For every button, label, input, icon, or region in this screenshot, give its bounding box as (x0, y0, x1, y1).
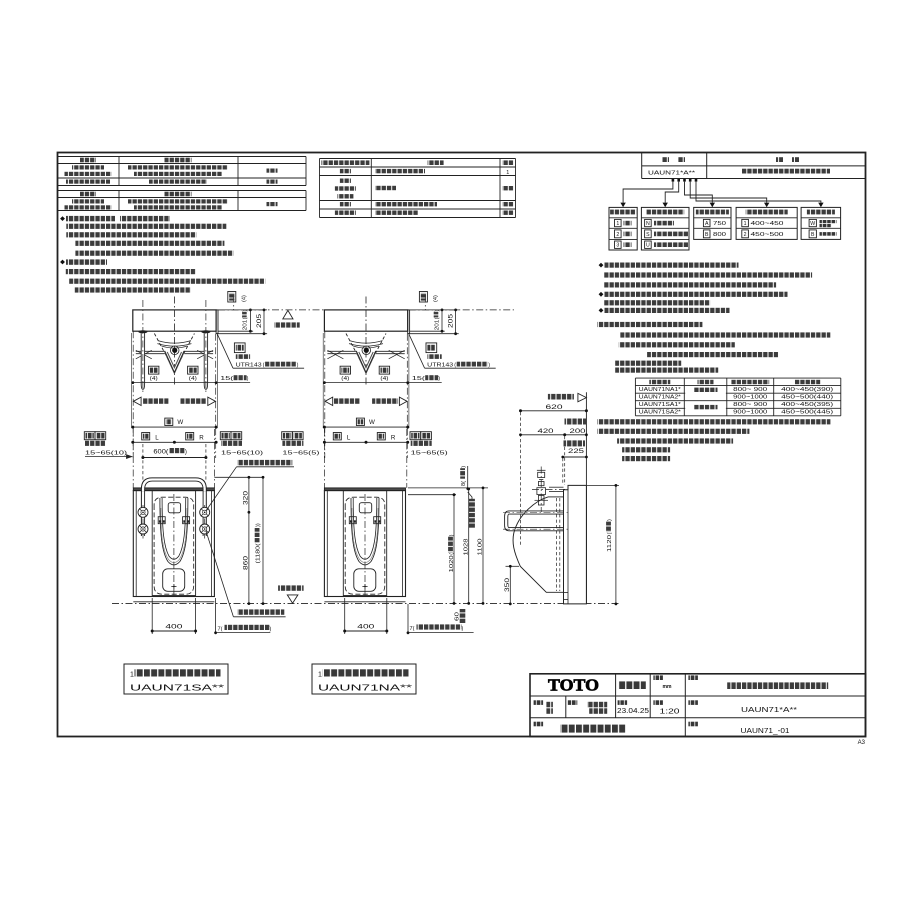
plan counter top board (133, 310, 216, 331)
svg-text:L: L (347, 434, 351, 441)
svg-text:): ) (185, 449, 187, 455)
filler label group 3 (282, 432, 293, 440)
dimension 201 top board depth (218, 309, 267, 311)
dimension 7 side panel case mid (407, 604, 409, 633)
remarks cell (534, 722, 544, 727)
svg-text:2: 2 (616, 232, 619, 238)
plan urinal funnel (358, 353, 374, 371)
svg-text:(4): (4) (433, 295, 439, 302)
tree box fixture pitch (694, 207, 731, 239)
notes usage caution (60, 260, 65, 265)
grab bar side view (509, 510, 564, 512)
plan grab bar (201, 330, 210, 333)
svg-text:750: 750 (713, 221, 726, 227)
svg-text:R: R (391, 434, 396, 441)
svg-text:)): )) (256, 523, 262, 527)
plan spreader pipes (136, 350, 166, 352)
plan urinal drain spud (172, 348, 177, 353)
svg-text:UTR143: UTR143 (427, 363, 453, 369)
plan centerline (173, 297, 175, 386)
svg-text:UAUN71NA1*: UAUN71NA1* (639, 387, 681, 393)
plan centerline (365, 297, 367, 386)
svg-text:1: 1 (506, 170, 509, 176)
grab bar centerline (142, 505, 144, 539)
svg-text:450~500(440): 450~500(440) (781, 395, 834, 401)
elevation front panel (324, 491, 405, 597)
plan side cross marks (136, 350, 152, 359)
svg-text:350: 350 (505, 577, 511, 592)
svg-text:U: U (646, 243, 650, 249)
elevation top board edge band (324, 488, 405, 491)
svg-text:205: 205 (257, 313, 263, 328)
svg-text:1: 1 (318, 671, 322, 678)
callout grab bar supplied separately (206, 467, 237, 511)
svg-text:800: 800 (713, 232, 726, 238)
svg-text:1: 1 (744, 221, 747, 227)
svg-text:900~1000: 900~1000 (733, 395, 767, 401)
elevation top board edge band (133, 488, 214, 491)
extension top board mid (408, 487, 488, 489)
svg-text:1028: 1028 (463, 539, 469, 556)
table floor substrate (58, 190, 307, 192)
callout bar mounting hole opening (206, 531, 234, 617)
tree box fixture width (736, 207, 797, 239)
svg-text:UAUN71SA**: UAUN71SA** (130, 683, 225, 693)
svg-text:B: B (811, 232, 815, 238)
grab bar flange (138, 524, 148, 534)
title block frame (530, 674, 866, 737)
plan urinal drain spud (364, 348, 369, 353)
note 1 opening dimensions (597, 322, 702, 327)
plan urinal funnel (166, 353, 182, 371)
elevation filler strips (326, 491, 328, 597)
svg-text:(: ( (434, 317, 440, 319)
elevation base skirt (133, 596, 214, 598)
grab bar centerline (204, 505, 206, 539)
svg-text:7(: 7( (410, 626, 415, 632)
elevation flush unit (168, 503, 180, 513)
tree box grab-bar machining (641, 207, 689, 250)
svg-text:UAUN71*A**: UAUN71*A** (648, 170, 696, 176)
side panel profile (564, 485, 587, 604)
sheet frame (58, 153, 866, 737)
svg-text:(: ( (243, 317, 249, 319)
svg-text:23.04.25: 23.04.25 (617, 708, 649, 715)
svg-text:N: N (646, 221, 650, 227)
svg-text:8(: 8( (461, 481, 467, 486)
floor line (112, 603, 619, 605)
dimension 1028 (468, 489, 470, 604)
svg-text:15~65(10): 15~65(10) (85, 451, 127, 457)
svg-text:L: L (155, 434, 159, 441)
elevation urinal bowl rim (160, 498, 188, 565)
elevation urinal bowl rim (351, 498, 379, 565)
dimension 1020 urinal (408, 494, 456, 496)
wall lines above left elevation (132, 429, 134, 488)
svg-text:225: 225 (568, 449, 585, 455)
dimension L R (142, 433, 150, 440)
plan counter top board (324, 310, 407, 331)
unit cell (653, 675, 663, 680)
table lining parts breakdown (320, 158, 516, 160)
svg-text:(4): (4) (150, 376, 158, 382)
grab bar front view (141, 487, 144, 491)
svg-text:(: ( (607, 532, 613, 534)
svg-text:): ) (438, 376, 440, 382)
svg-text:1020: 1020 (449, 555, 455, 572)
svg-text:(4): (4) (189, 376, 197, 382)
table part number and name (641, 153, 643, 179)
svg-text:(: ( (449, 553, 455, 555)
svg-text:201: 201 (434, 320, 440, 331)
svg-text:205: 205 (449, 313, 455, 328)
elevation urinal hidden outline (154, 497, 194, 594)
plan note2 markers inside (340, 366, 350, 374)
rotated note2 marker (419, 292, 427, 303)
svg-text:400~450: 400~450 (751, 221, 784, 227)
svg-text:A: A (705, 221, 709, 227)
svg-text:TOTO: TOTO (548, 675, 599, 694)
dimension W (356, 418, 364, 425)
dimension 205 (410, 333, 459, 335)
elevation urinal centerline (173, 494, 175, 596)
side panel centerline stub (424, 296, 426, 310)
label box with grab bars (124, 664, 228, 694)
svg-text:60: 60 (455, 612, 461, 621)
plan spreader pipes (327, 350, 357, 352)
table wall substrate (58, 156, 307, 158)
svg-text:15~65(5): 15~65(5) (411, 451, 448, 457)
plan W extension lines (131, 333, 133, 428)
notes frame installation (60, 216, 65, 221)
svg-text:(: ( (263, 363, 265, 369)
svg-text:UAUN71NA2*: UAUN71NA2* (639, 395, 681, 401)
scale cell (653, 700, 663, 705)
svg-text:W: W (177, 419, 183, 426)
dimension 201 top board depth (410, 309, 459, 311)
svg-text:320: 320 (243, 490, 249, 505)
plan width reference line (324, 382, 441, 384)
elevation access opening (152, 491, 195, 596)
plan urinal rim arcs (158, 341, 191, 344)
elevation urinal centerline (364, 494, 366, 596)
plan W extension lines (322, 333, 324, 428)
svg-text:400~450(390): 400~450(390) (781, 387, 834, 393)
dimension L R (333, 433, 341, 440)
elevation sensors (158, 517, 165, 524)
tree box unit count (609, 207, 637, 250)
plan wall face lines (132, 331, 134, 458)
date cell (618, 700, 628, 705)
svg-text:): ) (607, 519, 613, 521)
svg-text:1: 1 (616, 221, 619, 227)
svg-text:15~65(10): 15~65(10) (221, 451, 263, 457)
svg-text:860: 860 (243, 555, 249, 570)
plan width reference line (133, 382, 250, 384)
filler label group 1 (84, 432, 95, 440)
plan side panel strip (408, 310, 410, 334)
svg-text:(: ( (454, 363, 456, 369)
filler label group 2 (220, 432, 231, 440)
wall finish surface marker above plans (283, 310, 293, 319)
elevation trap cover (354, 569, 376, 592)
svg-text:(4): (4) (242, 295, 248, 302)
inlet pipe to panel (549, 486, 564, 488)
svg-text:600(: 600( (153, 449, 168, 455)
svg-text:mm: mm (663, 684, 672, 690)
svg-text:800~ 900: 800~ 900 (733, 387, 767, 393)
svg-text:400: 400 (357, 624, 375, 631)
dimension 225 side panel depth (564, 440, 586, 446)
svg-text:UAUN71_-01: UAUN71_-01 (741, 726, 790, 735)
svg-text:): ) (462, 626, 464, 632)
svg-text:B: B (705, 232, 709, 238)
svg-text:800~ 900: 800~ 900 (733, 402, 767, 408)
svg-text:400~450(395): 400~450(395) (781, 402, 834, 408)
urinal side profile (548, 496, 564, 498)
svg-text:): ) (247, 376, 249, 382)
svg-text:3: 3 (616, 243, 619, 249)
dimension 1180 grab bar (262, 477, 264, 603)
table applicable openings (635, 377, 840, 379)
svg-text:(4): (4) (380, 376, 388, 382)
svg-text:200: 200 (570, 429, 587, 435)
elevation sensors (349, 517, 356, 524)
svg-text:15~65(5): 15~65(5) (282, 451, 319, 457)
svg-text:620: 620 (546, 404, 564, 411)
label box without grab bars (312, 664, 416, 694)
svg-text:(1180(: (1180( (256, 543, 262, 563)
svg-text:): ) (488, 363, 490, 369)
svg-text:450~500: 450~500 (751, 232, 784, 238)
plan side panel strip (216, 310, 218, 334)
svg-text:UAUN71SA2*: UAUN71SA2* (639, 410, 681, 416)
svg-text:UAUN71*A**: UAUN71*A** (741, 705, 797, 714)
drawing number cell (688, 722, 698, 727)
elevation front panel (133, 491, 214, 597)
elevation filler strips (135, 491, 137, 597)
svg-text:7(: 7( (218, 627, 223, 633)
dimension W (165, 418, 173, 425)
dimension 8 top board (460, 466, 467, 486)
plan side cross marks (327, 350, 343, 359)
plan wall face lines (324, 331, 326, 458)
tree box front panel color (801, 207, 841, 239)
model code option tree (672, 179, 675, 182)
dimension 860 (248, 512, 250, 603)
dimension 12 opening leader (468, 492, 472, 499)
svg-text:450~500(445): 450~500(445) (781, 410, 834, 416)
side view wall line (585, 392, 587, 604)
checker cell (568, 700, 578, 705)
dimension 7 side panel case left (215, 598, 217, 633)
svg-text:1:20: 1:20 (660, 706, 680, 715)
svg-text:900~1000: 900~1000 (733, 410, 767, 416)
svg-text:201: 201 (243, 320, 249, 331)
dimension 205 (218, 333, 267, 335)
note3 side panel callout (409, 333, 425, 368)
name cell (688, 675, 698, 680)
dimension 1120 side panel (587, 484, 619, 486)
plan grab bar (138, 330, 147, 333)
third angle projection label (618, 681, 646, 689)
drafter cell (534, 700, 544, 705)
svg-text:(4): (4) (341, 376, 349, 382)
svg-text:): ) (449, 534, 455, 536)
svg-text:): ) (270, 627, 272, 633)
flush valve assembly side (540, 467, 542, 513)
rotated note2 marker (228, 292, 236, 303)
side panel centerline stub (233, 296, 235, 310)
svg-text:A3: A3 (858, 740, 866, 746)
svg-text:S: S (646, 232, 650, 238)
dimension 350 (506, 565, 520, 567)
side wall finish label and triangle (548, 394, 574, 400)
wall finish surface triangles and labels (133, 397, 141, 405)
grab bar flange (200, 524, 210, 534)
svg-text:R: R (199, 434, 204, 441)
note3 side panel callout (217, 333, 233, 368)
part number cell (688, 700, 698, 705)
svg-text:1120: 1120 (607, 535, 613, 552)
wall line extension between plan views (218, 309, 324, 311)
dimension 1100 (482, 488, 484, 604)
svg-text:): ) (297, 363, 299, 369)
grab bar flange (138, 507, 148, 517)
elevation urinal hidden outline (345, 497, 385, 594)
svg-text:15(: 15( (412, 376, 425, 382)
svg-text:UAUN71NA**: UAUN71NA** (318, 683, 413, 693)
plan urinal rim arcs (350, 341, 383, 344)
dimension 320 bar height (214, 476, 262, 478)
svg-text:1: 1 (130, 671, 134, 678)
svg-text:W: W (369, 419, 375, 426)
svg-text:UTR143: UTR143 (236, 363, 262, 369)
elevation flush unit (359, 503, 371, 513)
dimension 400 left (151, 598, 153, 634)
svg-text:420: 420 (538, 429, 555, 435)
svg-text:): ) (461, 466, 467, 468)
plan urinal bowl hidden outline (346, 334, 386, 373)
elevation access opening (343, 491, 386, 596)
svg-text:2: 2 (744, 232, 747, 238)
svg-text:400: 400 (165, 624, 183, 631)
dimension 400 mid (344, 598, 346, 634)
svg-text:UAUN71SA1*: UAUN71SA1* (639, 402, 681, 408)
elevation base skirt (324, 596, 405, 598)
plan note2 markers inside (149, 366, 159, 374)
notes product info (599, 263, 604, 268)
note 2 and note 3 (597, 419, 830, 424)
plan urinal bowl hidden outline (154, 334, 194, 373)
svg-text:W: W (810, 221, 815, 227)
svg-text:1100: 1100 (478, 539, 484, 556)
grab bar flange (200, 507, 210, 517)
floor finish label and triangle (278, 585, 304, 590)
elevation trap cover (163, 569, 185, 592)
svg-text:15(: 15( (220, 376, 233, 382)
wall finish surface triangles and labels (325, 397, 333, 405)
filler label group 4 (410, 432, 421, 440)
